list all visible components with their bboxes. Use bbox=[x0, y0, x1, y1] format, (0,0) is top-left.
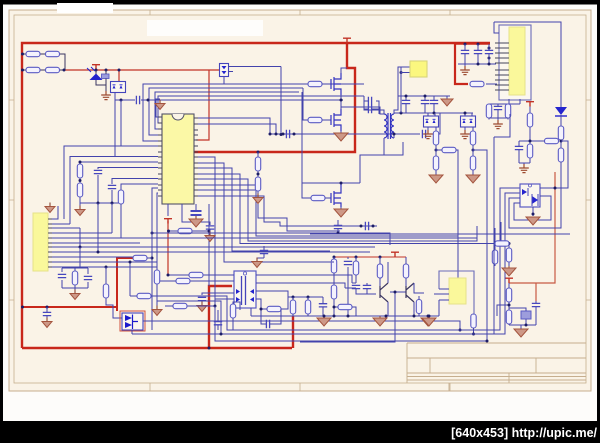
capacitor C30 bbox=[319, 304, 327, 307]
resistor R22 bbox=[470, 156, 475, 170]
junction U7g bbox=[428, 315, 431, 318]
wire amp ground rail bbox=[251, 308, 439, 316]
wire bottom join bbox=[489, 104, 508, 121]
wire R39 stubs bbox=[418, 296, 420, 316]
resistor R8 bbox=[77, 183, 82, 197]
capacitor C2 bbox=[136, 96, 139, 104]
resistor R29 bbox=[527, 113, 532, 127]
junction F bbox=[147, 99, 150, 102]
wire x215 drop bbox=[215, 306, 487, 341]
capacitor C8 bbox=[58, 274, 66, 277]
transistor Q6 npn bbox=[406, 283, 414, 302]
capacitor C4 bbox=[94, 170, 102, 173]
capacitor C17 bbox=[421, 100, 429, 103]
capacitor C18 bbox=[430, 100, 438, 103]
power VCC4 bbox=[391, 252, 399, 257]
junction AH2 bbox=[333, 306, 336, 309]
wire p156 west bbox=[70, 157, 158, 225]
junction AQ5 bbox=[394, 291, 397, 294]
ground G17 bbox=[460, 66, 470, 75]
resistor R5 bbox=[255, 157, 260, 171]
wire D3 stub bbox=[229, 71, 234, 73]
junction U bbox=[340, 99, 343, 102]
resistor R7 bbox=[77, 164, 82, 178]
wire p178 west bbox=[112, 179, 158, 185]
junction X bbox=[393, 133, 396, 136]
resistor R2 bbox=[46, 51, 60, 56]
capacitor C28 bbox=[363, 285, 371, 288]
capacitor C26 bbox=[344, 261, 352, 264]
wire drop from cap line bbox=[120, 100, 122, 146]
dual diode D7 box bbox=[122, 313, 143, 330]
wire D4 pins bbox=[428, 113, 436, 131]
wire red top-right drop to U4 bbox=[455, 43, 468, 84]
wire C11 stubs bbox=[337, 220, 339, 233]
ground G31 bbox=[252, 258, 262, 268]
wire long verticals x152 x157 bbox=[152, 188, 158, 330]
junction I bbox=[275, 133, 278, 136]
wire red bottom-right feedback bbox=[509, 172, 555, 301]
wire C30 stubs bbox=[322, 297, 324, 316]
junction M bbox=[257, 173, 260, 176]
resistor R48 bbox=[495, 241, 509, 246]
wire U3 left pin 299 bbox=[187, 299, 234, 306]
junction AS bbox=[525, 324, 528, 327]
junction K bbox=[293, 133, 296, 136]
wire R20 links bbox=[436, 150, 458, 283]
wire amp column stubs bbox=[332, 257, 406, 316]
ground G30 arrow bbox=[502, 266, 516, 276]
dual diode D2 bbox=[111, 82, 126, 93]
wire bus233 bbox=[52, 233, 390, 245]
wire D2 bottom drop bbox=[114, 93, 116, 157]
wire p162 west bbox=[80, 161, 158, 163]
wire red branch to transformer VCC bbox=[194, 43, 355, 152]
junction Z6 bbox=[472, 149, 475, 152]
wire x221 loop bbox=[157, 193, 520, 334]
ground G13 bbox=[423, 130, 433, 139]
wire cap row y96 bbox=[398, 95, 450, 97]
wire R52 west stub bbox=[130, 262, 137, 296]
ground G19 bbox=[519, 164, 529, 173]
junction H bbox=[269, 133, 272, 136]
junction Z4 bbox=[435, 149, 438, 152]
junction AF bbox=[355, 256, 358, 259]
wire Q3 drain bus y183 bbox=[302, 182, 360, 184]
IC U2 body bbox=[33, 213, 48, 271]
wire R12 column bbox=[106, 267, 122, 318]
wire Q1 drain to VCC bbox=[341, 68, 347, 73]
capacitor C13 bbox=[368, 97, 371, 105]
transistor Q1 mosfet bbox=[331, 73, 341, 95]
resistor R53 inline bbox=[154, 270, 159, 284]
resistor R32 bbox=[176, 278, 190, 283]
power VCC1 bbox=[343, 38, 351, 43]
IC U1 left pins bbox=[158, 117, 162, 196]
resistor R42 bbox=[290, 300, 295, 314]
resistor R37 bbox=[403, 264, 408, 278]
junction B bbox=[95, 69, 98, 72]
resistor R11 bbox=[72, 271, 77, 285]
ground G9 arrow bbox=[334, 133, 348, 141]
wire network joins bbox=[509, 301, 536, 325]
wire primary top caps loop bbox=[364, 96, 384, 114]
junction Z12 bbox=[529, 140, 532, 143]
junction AM1 bbox=[292, 296, 295, 299]
wire D5 pins bbox=[465, 113, 473, 131]
IC U7 body bbox=[449, 278, 466, 304]
wire cap bank stubs bbox=[458, 44, 496, 66]
capacitor C11 bus bbox=[334, 225, 342, 228]
junction Z10 bbox=[488, 63, 491, 66]
wire RC loop bbox=[256, 297, 288, 324]
junction T bbox=[151, 257, 154, 260]
wire nest line4 bbox=[158, 96, 364, 123]
wire red bottom rail bbox=[22, 347, 292, 349]
wire bus257 bbox=[52, 256, 133, 258]
resistor R4 bbox=[46, 67, 60, 72]
wire U8 right out bbox=[540, 141, 568, 188]
ground G27 arrow bbox=[514, 329, 528, 337]
resistor R39 bbox=[416, 300, 421, 314]
wire U3 left pin 281 bbox=[190, 280, 234, 282]
power VCC6 bbox=[526, 102, 534, 107]
wire input row1 bbox=[22, 54, 65, 70]
wire fan p179 bbox=[198, 179, 477, 241]
wire U8 gnd bbox=[532, 207, 534, 216]
wire nest line1 bbox=[143, 84, 364, 141]
wire title corner riser bbox=[300, 334, 395, 342]
resistor R49 bbox=[492, 250, 497, 264]
red protection rectangle bbox=[120, 311, 145, 331]
wire secondary top bbox=[394, 67, 404, 114]
resistor R25 bbox=[505, 104, 510, 118]
wire fan p163 bbox=[198, 163, 332, 262]
wire U3 left pin 293 cap bbox=[202, 293, 234, 295]
wire U6 top loop bbox=[494, 22, 561, 107]
wire bus247 bbox=[52, 246, 375, 248]
junction AM3 bbox=[323, 315, 326, 318]
capacitor C22 bbox=[494, 106, 502, 109]
ground G8 bbox=[70, 290, 80, 300]
capacitor C29 bbox=[266, 320, 269, 328]
wire U8 pin198 loop bbox=[509, 162, 561, 228]
resistor R23 feed bbox=[470, 81, 484, 86]
diode D1 LED bbox=[87, 67, 106, 93]
resistor R16 gate Q3 bbox=[311, 195, 325, 200]
junction G bbox=[280, 133, 283, 136]
resistor R45 bbox=[506, 288, 511, 302]
junction S bbox=[105, 266, 108, 269]
junction J bbox=[282, 133, 285, 136]
white patch top center bbox=[147, 20, 263, 36]
junction AI bbox=[347, 315, 350, 318]
ground G16 arrow bbox=[466, 175, 480, 183]
power VCC2 small bbox=[92, 65, 100, 70]
wire primary bottom bbox=[360, 138, 403, 183]
transformer secondary winding bbox=[391, 114, 394, 138]
wire bus267 bbox=[52, 266, 157, 268]
wire R7 stack bbox=[79, 162, 81, 207]
capacitor C19 bbox=[461, 50, 469, 53]
ground G26 arrow bbox=[526, 217, 540, 225]
resistor R15 gate Q2 bbox=[308, 117, 322, 122]
junction AC bbox=[46, 306, 49, 309]
capacitor C1 block bbox=[102, 74, 110, 79]
wire cap bank bus bbox=[455, 43, 490, 45]
wire C24 gnd bbox=[201, 301, 203, 304]
wire fan p157 bbox=[198, 157, 215, 306]
junction O bbox=[79, 179, 82, 182]
wire RC loop feed bbox=[62, 247, 88, 292]
capacitor C21 bbox=[485, 50, 493, 53]
resistor R46 bbox=[506, 310, 511, 324]
wire red lower-left branch bbox=[23, 258, 133, 311]
transistor Q2 mosfet bbox=[331, 109, 341, 131]
wire bottom pin c cap bbox=[195, 204, 197, 210]
resistor R26 bbox=[558, 126, 563, 140]
junction C12b bbox=[372, 225, 375, 228]
wire R43 stubs bbox=[307, 297, 309, 316]
wire x227 loop bbox=[152, 188, 520, 330]
transformer primary winding bbox=[384, 114, 387, 138]
wire U3 left pin 275 bbox=[203, 274, 234, 276]
wire p167 west bbox=[98, 168, 158, 170]
ground G5 wide arrow bbox=[189, 216, 203, 227]
junction Y2 bbox=[400, 112, 403, 115]
junction Z3 bbox=[433, 112, 436, 115]
ground G21 bbox=[197, 302, 207, 312]
junction R2 bbox=[97, 251, 100, 254]
junction Z7 bbox=[464, 43, 467, 46]
wire pin118 east bbox=[198, 118, 270, 134]
wire feedback loop rect a bbox=[310, 220, 570, 234]
junction AR bbox=[508, 304, 511, 307]
wire bottom pin a bbox=[167, 204, 169, 216]
resistor R43 bbox=[305, 300, 310, 314]
capacitor C5 bbox=[108, 185, 116, 188]
wire fan p168 bbox=[198, 168, 330, 251]
component R47 block bbox=[521, 311, 531, 319]
wire R33 west bbox=[165, 305, 173, 307]
resistor R33 bbox=[173, 303, 187, 308]
junction Y bbox=[400, 71, 403, 74]
capacitor C15 on y134 bbox=[422, 130, 425, 138]
junction C11b bbox=[337, 232, 340, 235]
junction A4 bbox=[21, 306, 24, 309]
junction U6b bbox=[488, 57, 491, 60]
resistor R12 bbox=[103, 284, 108, 298]
wire R32 west gnd bbox=[157, 281, 176, 307]
resistor R40 emitter bbox=[338, 304, 352, 309]
wire Q5 collector bbox=[387, 262, 389, 283]
wire bus224 bbox=[52, 223, 70, 225]
junction Z9 bbox=[477, 63, 480, 66]
wire upper resistor pair column bbox=[495, 222, 509, 266]
wire red stub to dual diode D2 bbox=[118, 70, 120, 81]
wire dual diode D3 drop bbox=[223, 76, 225, 84]
capacitor C32 bbox=[214, 322, 222, 325]
wire gnd stem bbox=[520, 325, 522, 329]
wire D7 bottom wrap bbox=[131, 330, 133, 334]
wire divider chain bbox=[257, 152, 259, 196]
junction R10a bbox=[167, 230, 170, 233]
wire y113 rail bbox=[394, 112, 473, 114]
junction P bbox=[97, 202, 100, 205]
ground G6 bbox=[205, 232, 215, 242]
wire Q1Q2 midpoint bbox=[341, 95, 343, 109]
junction Z1 bbox=[405, 95, 408, 98]
resistor R34 bbox=[331, 259, 336, 273]
capacitor C9 bbox=[84, 276, 92, 279]
ground G10 arrow bbox=[334, 209, 348, 217]
wire fan p196 bbox=[198, 196, 377, 226]
wire cap pair joins bbox=[345, 283, 376, 294]
junction Z2 bbox=[424, 95, 427, 98]
wire red thin net y70 bbox=[65, 70, 220, 140]
wire Q3 source stub bbox=[340, 207, 342, 209]
IC U6 body bbox=[509, 27, 525, 95]
wire red feed down left of opto bbox=[167, 221, 169, 276]
junction A2 bbox=[21, 53, 24, 56]
junction E bbox=[120, 99, 123, 102]
ground G12 arrow bbox=[441, 99, 453, 106]
junction C bbox=[105, 69, 108, 72]
wire R13 to x152 bbox=[147, 257, 152, 259]
wire Q5 emitter bbox=[387, 302, 389, 316]
wire rail y203 bbox=[80, 202, 122, 204]
wire upper rail y297 bbox=[288, 296, 323, 298]
junction AO bbox=[459, 329, 462, 332]
junction AD red rail bbox=[208, 347, 211, 350]
wire y334 long bbox=[132, 333, 505, 335]
ground G22 arrow bbox=[42, 318, 52, 328]
transistor Q5 npn bbox=[380, 283, 388, 302]
wire C32 links bbox=[217, 310, 219, 330]
capacitor C12 bus bbox=[365, 222, 368, 230]
wire R18 chain bbox=[435, 145, 437, 175]
wire C1 links bbox=[105, 70, 107, 85]
wire U6 bottom pins bbox=[489, 99, 520, 105]
wire interstage bbox=[390, 292, 406, 341]
wire red main loop left+top bbox=[22, 43, 490, 348]
ground G1 bbox=[101, 91, 111, 100]
ground G24 arrow bbox=[421, 316, 435, 326]
junction R52a bbox=[129, 261, 132, 264]
dual diode D4 bbox=[424, 116, 439, 127]
wire y134 bus to transformer bbox=[270, 133, 420, 135]
resistor R38 bbox=[331, 285, 336, 299]
capacitor C14 bbox=[368, 105, 371, 113]
wire R42 stubs bbox=[292, 297, 294, 316]
ground G25 arrow bbox=[317, 316, 331, 326]
wire p184 west bbox=[121, 184, 158, 190]
IC U3 body bbox=[234, 271, 256, 308]
ground G3 bbox=[253, 194, 263, 204]
resistor R21 bbox=[470, 131, 475, 145]
wire C13 stubs bbox=[364, 101, 372, 109]
resistor R9 bbox=[118, 190, 123, 204]
wire x558 column bbox=[560, 116, 562, 228]
wire C7 gnd bbox=[209, 229, 211, 234]
resistor R36 bbox=[377, 264, 382, 278]
junction R3 bbox=[151, 232, 154, 235]
power VCC5 bbox=[505, 278, 513, 283]
junction AK bbox=[413, 315, 416, 318]
wire R45 stubs bbox=[497, 283, 509, 316]
capacitor C25 on red rail bbox=[43, 312, 51, 315]
wire R10 link bbox=[169, 230, 209, 232]
ground G20 arrow bbox=[152, 306, 162, 316]
wire y134 to riser bbox=[426, 113, 440, 134]
wire C25 stubs bbox=[46, 307, 48, 320]
capacitor C24 bbox=[198, 297, 206, 300]
junction D bbox=[118, 69, 121, 72]
junction C12a bbox=[360, 225, 363, 228]
wire C33 stubs bbox=[257, 246, 264, 260]
wire gate stubs bbox=[302, 84, 331, 198]
wire bottom bus y330 bbox=[227, 329, 500, 331]
wire cap-line y100 bbox=[115, 99, 341, 101]
capacitor C20 bbox=[474, 50, 482, 53]
wire red riser mid to opto U3 bbox=[209, 286, 232, 348]
resistor R52 on y296 bbox=[137, 293, 151, 298]
junction R bbox=[79, 246, 82, 249]
resistor R6 bbox=[255, 177, 260, 191]
diode D6 bbox=[555, 107, 567, 126]
junction R10b bbox=[208, 230, 211, 233]
wire U2 pin1 gnd hook bbox=[52, 206, 58, 219]
junction W bbox=[340, 182, 343, 185]
IC U3 internals bbox=[242, 276, 246, 305]
junction Z5 bbox=[464, 112, 467, 115]
IC U8 body bbox=[520, 184, 540, 207]
junction AE bbox=[333, 256, 336, 259]
junction AU bbox=[486, 340, 489, 343]
wire U6 left pins g2 bbox=[495, 70, 509, 90]
wire x209 drop bbox=[208, 204, 210, 286]
junction AM4 bbox=[260, 308, 263, 311]
junction AT bbox=[220, 333, 223, 336]
wire U7 left pins bbox=[434, 289, 449, 316]
resistor R27 bbox=[558, 148, 563, 162]
wire nest line3 bbox=[155, 92, 299, 129]
junction AG bbox=[379, 256, 382, 259]
wire R21 chain bbox=[473, 145, 487, 341]
wire U8 pin203 loop bbox=[514, 196, 551, 220]
wire x491 drop bbox=[494, 114, 510, 334]
IC U1 right pins bbox=[194, 118, 198, 196]
resistor chain on red net y152: junction L bbox=[257, 151, 260, 154]
resistor R18 bbox=[433, 131, 438, 145]
wire Q6 collector bbox=[414, 283, 424, 293]
resistor R24 bbox=[486, 104, 491, 118]
junction AL bbox=[427, 315, 430, 318]
wire R44 stubs bbox=[473, 314, 475, 334]
ground G23 arrow bbox=[373, 316, 387, 326]
capacitor C7 bbox=[206, 226, 214, 229]
ground G29 arrow bbox=[422, 316, 436, 326]
resistor R28 horizontal bbox=[545, 138, 559, 143]
ground G2 arrow in hook bbox=[155, 100, 165, 110]
resistor R35 bbox=[353, 261, 358, 275]
resistor R3 bbox=[26, 67, 40, 72]
resistor R51 below U3 bbox=[230, 304, 235, 318]
IC U1 body bbox=[162, 114, 194, 204]
wire yellow module feed bbox=[401, 67, 410, 113]
capacitor C23 bbox=[515, 146, 523, 149]
wire U6 left pins g1 bbox=[495, 43, 509, 63]
